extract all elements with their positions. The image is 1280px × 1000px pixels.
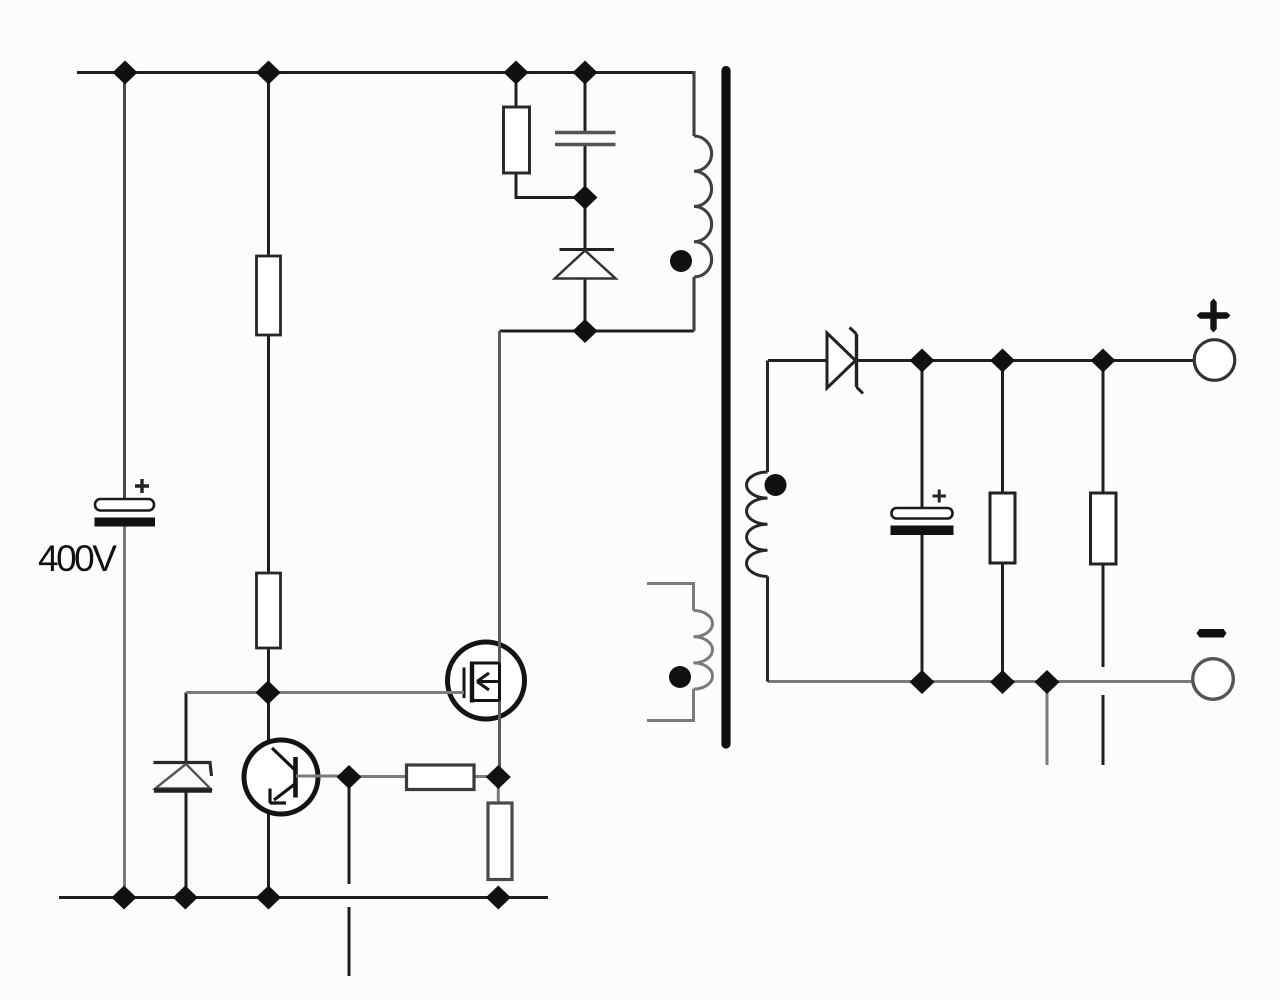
svg-text:400V: 400V <box>38 538 117 579</box>
